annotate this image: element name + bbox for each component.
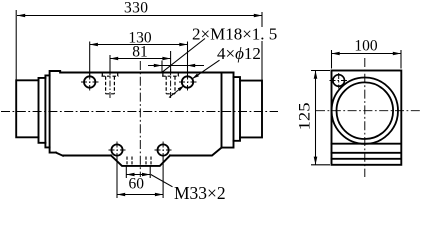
bottom trapezoid boss [111,156,170,166]
dimension 81 arrows [110,57,118,61]
dimension 60 arrows [117,193,125,197]
left ring 3 [45,75,49,147]
hidden lines M33 bottom port [127,157,151,166]
dimension 100 extension lines [332,50,402,69]
dimension 100 arrows [332,52,340,56]
hidden lines M18 port left [102,73,119,94]
bottom lug hole circle right [158,144,169,155]
dimension 60 line [117,194,163,196]
crosshair bottom right circle [155,142,172,158]
left ring 2 [39,78,46,143]
top edge [60,72,233,74]
bottom lug hole circle left [111,144,122,155]
right view horizontal centerline [316,110,421,112]
svg-text:4×ϕ12: 4×ϕ12 [217,44,261,63]
small dimension counterbore extension line [161,61,163,73]
svg-text:M33×2: M33×2 [174,183,226,203]
svg-text:125: 125 [297,102,314,130]
dimension 330 extension line right (broken by text) [261,12,263,81]
svg-text:100: 100 [354,38,378,55]
leader 4xphi12 lower segment with arrow to circle [169,86,183,97]
dimension 125 extension lines [311,71,330,165]
right ring B [234,77,241,141]
leader 4xphi12 upper segment with arrow to circle [192,60,219,79]
crosshair bottom left circle [109,142,126,158]
left view horizontal centerline [1,111,278,113]
dimension 130 extension lines [90,42,188,77]
port left centerline [109,69,111,100]
leader M33x2 [151,175,173,187]
left collar [50,71,61,153]
dimension M33 extension lines [126,167,150,179]
svg-text:81: 81 [132,43,148,60]
right view corner hole circle [333,75,345,87]
dimension 130 line [90,44,188,46]
dimension 100 line [332,53,402,55]
right view bore inner circle [337,82,394,139]
dimension 81 extension lines [110,51,171,72]
leader 2xM18 [162,39,205,73]
right body face seam [221,73,223,148]
svg-text:330: 330 [124,0,148,17]
svg-text:2×M18×1. 5: 2×M18×1. 5 [192,24,277,43]
right end cylinder [240,81,262,138]
right view body outline [332,71,402,165]
dimension 330 arrows [17,14,25,18]
port right centerline [170,69,172,100]
left ring 1 end face [16,80,38,137]
dimension 330 line [17,15,262,17]
left view vertical centerline [139,61,141,177]
crosshair top left circle [81,74,99,91]
svg-text:60: 60 [128,175,144,192]
top hole circle right [182,76,193,87]
dimension 130 arrows [90,43,98,47]
top hole circle left (M18 port boss hole) [84,76,95,87]
right view bore outer circle [332,78,398,144]
dimension M33 arrows [126,173,134,177]
dimension 81 line [110,58,171,60]
right ring A flush segment [222,73,234,148]
dimension 330 extension line left [15,10,17,80]
dimension 60 extension lines [117,156,163,198]
small dimension arrows [154,64,162,68]
dimension 125 line [315,71,317,165]
small dimension line with outside arrows [148,65,204,67]
crosshair corner hole [330,73,348,89]
crosshair top right circle [179,74,197,91]
body outline left view [16,71,262,166]
right view vertical centerline [364,58,366,177]
dimension 125 arrows [314,71,318,79]
hidden lines M18 port right [162,73,179,94]
bottom edge with chamfers [56,148,222,156]
dimension M33 line [126,174,150,176]
